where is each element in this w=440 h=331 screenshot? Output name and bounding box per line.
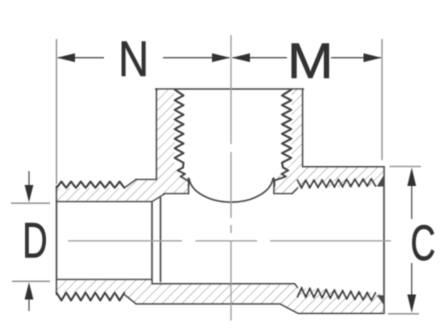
dimension C line	[411, 186, 413, 295]
arrow D down	[25, 185, 34, 202]
dimension D top leader	[28, 171, 30, 186]
branch vertical centerline	[230, 35, 232, 321]
svg-text:N: N	[118, 30, 149, 87]
left bore bottom line	[57, 279, 153, 281]
hub thread chamfer dark top	[377, 175, 385, 187]
arrow N right	[212, 53, 230, 62]
branch right outer wall	[302, 89, 304, 167]
extension line D top	[11, 202, 50, 204]
svg-text:M: M	[287, 32, 333, 89]
dimension D bottom leader	[28, 298, 30, 311]
left thread chamfer top	[125, 180, 137, 189]
hub internal thread bottom	[298, 288, 376, 301]
extension line right	[381, 39, 383, 160]
hub top edge	[303, 166, 385, 168]
left end face edge	[56, 186, 58, 295]
mid bore bottom line	[152, 283, 295, 285]
extension line C bottom	[388, 313, 419, 315]
arrow D up	[25, 282, 34, 299]
arrow C up	[407, 168, 416, 187]
left bore top line	[57, 201, 153, 203]
svg-text:D: D	[23, 211, 48, 268]
extension line C top	[390, 166, 422, 168]
branch bore blend arc	[189, 179, 273, 203]
right end face edge	[383, 167, 385, 313]
hub thread entry chamfer	[292, 188, 298, 194]
branch bore corner left	[188, 178, 190, 194]
bore shoulder face	[151, 202, 153, 284]
shoulder chamfer	[152, 194, 165, 202]
branch left internal thread	[175, 90, 189, 187]
bottom thread chamfer	[125, 295, 137, 304]
hatched section: bottom wall	[57, 280, 385, 314]
branch wall bottom face right	[274, 193, 292, 195]
hatched section: branch right wall and hub top wall	[274, 89, 384, 194]
mid bore step to hub thread	[295, 284, 298, 288]
arrow C down	[407, 295, 416, 313]
extension line D bottom	[12, 280, 50, 282]
branch left outer wall	[156, 89, 158, 180]
mid bottom edge	[136, 303, 280, 305]
arrow N left	[57, 53, 75, 62]
extension line left	[56, 39, 58, 184]
run horizontal centerline	[68, 240, 391, 242]
svg-text:C: C	[411, 214, 436, 271]
branch bore corner right	[273, 178, 275, 194]
hub internal thread top	[298, 179, 376, 188]
branch top edge	[156, 88, 304, 90]
dimension N line	[58, 57, 230, 59]
hatched section: left body wall and branch left wall	[57, 89, 189, 202]
hub bottom edge	[298, 312, 384, 314]
arrow M left	[232, 53, 250, 62]
branch wall bottom face left	[165, 193, 189, 195]
arrow M right	[364, 53, 382, 62]
branch right internal thread	[275, 90, 292, 187]
dimension M line	[233, 57, 382, 59]
hub bottom step	[280, 304, 298, 314]
left end external thread crests top	[57, 182, 125, 189]
left end external thread crests bottom	[57, 293, 125, 301]
thread relief line	[160, 198, 162, 282]
top-left body edge	[136, 179, 157, 181]
hub thread chamfer dark bottom	[377, 295, 385, 306]
